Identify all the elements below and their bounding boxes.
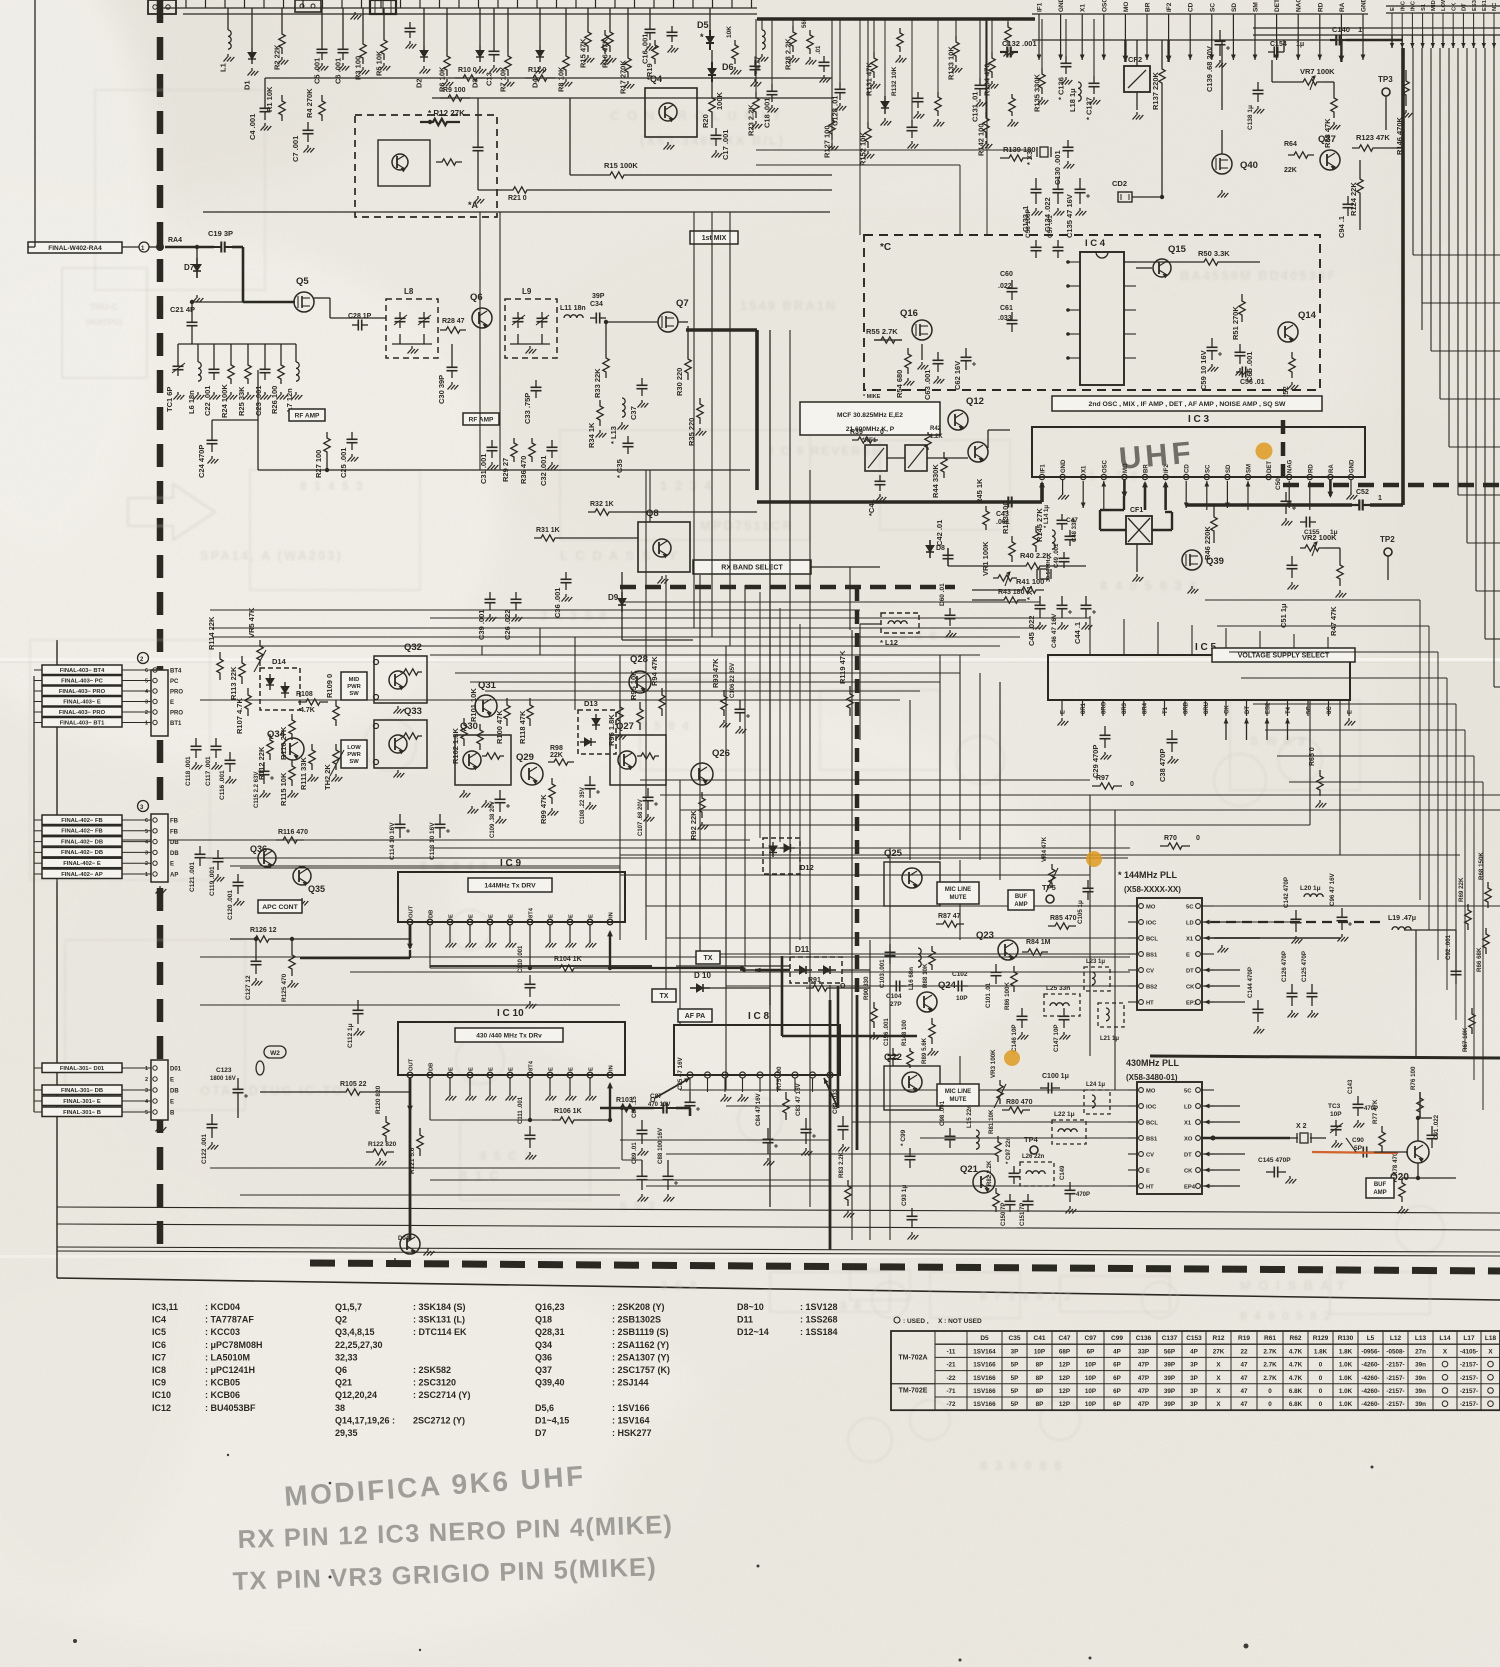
resistor R115 10K	[289, 760, 295, 786]
orange mark	[1256, 443, 1273, 460]
resistor R101 10K	[477, 724, 483, 750]
capacitor C150 7P	[1009, 1194, 1011, 1201]
resistor R118 47K	[527, 698, 533, 726]
IC8 pin	[775, 1072, 781, 1078]
capacitor C36 .001	[565, 572, 567, 579]
resistor R11 0	[525, 75, 555, 81]
connector FINAL-301-E	[42, 1096, 122, 1106]
wire	[430, 1179, 830, 1181]
wire	[1309, 700, 1311, 825]
connector FINAL-403-BT1	[42, 718, 122, 728]
orange mark 3	[1004, 1050, 1020, 1066]
resistor R27 100	[324, 432, 330, 458]
wire bold	[829, 1000, 832, 1250]
transistor Q31	[475, 695, 497, 717]
ground	[354, 12, 356, 15]
capacitor C49 .001	[1063, 552, 1065, 558]
capacitor C44 .1	[1085, 596, 1087, 605]
label TX	[696, 951, 720, 964]
wire	[230, 865, 620, 867]
capacitor C142 470P	[1295, 910, 1297, 919]
wire	[620, 601, 1040, 603]
wire	[240, 1194, 620, 1196]
wire	[212, 627, 1040, 629]
inductor L9	[505, 299, 557, 358]
connector FINAL-301-B	[42, 1107, 122, 1117]
wire	[645, 848, 647, 906]
capacitor C56 .01	[1236, 371, 1242, 373]
wire	[200, 857, 1128, 859]
resistor R69 22K	[1465, 904, 1471, 930]
handwritten UHF	[1118, 435, 1196, 476]
PLL1 pin MO	[1139, 904, 1144, 909]
pot VR2 100K	[1300, 545, 1324, 551]
orange mark 2	[1086, 851, 1102, 867]
resistor R54 680	[905, 348, 911, 374]
wire	[622, 639, 693, 641]
IC3 bottom pin IF2	[1163, 474, 1168, 479]
PLL2 pin HT	[1139, 1184, 1144, 1189]
resistor R77 47K	[1379, 1126, 1385, 1152]
IC4 pin	[1068, 357, 1080, 359]
wire	[756, 149, 1032, 151]
capacitor C82 .033	[842, 1116, 844, 1126]
red pencil mark	[1312, 1152, 1398, 1153]
capacitor C120 .001	[237, 874, 239, 882]
wire	[1272, 81, 1298, 83]
connector J1	[295, 0, 321, 12]
connector pin DT	[1462, 13, 1464, 35]
PLL2 pin EP4	[1196, 1184, 1201, 1189]
IC4	[1080, 252, 1124, 385]
wire	[1439, 48, 1441, 399]
resistor R15 100K	[600, 172, 634, 178]
IC3 pin OSC	[1103, 14, 1105, 40]
capacitor C126 470P	[1291, 984, 1293, 993]
capacitor C136	[1065, 19, 1067, 56]
wire bold	[686, 328, 757, 332]
IC5 pin CK	[1225, 700, 1227, 716]
wire	[57, 1251, 1500, 1256]
wire	[959, 165, 961, 235]
IC10 pin E	[587, 1072, 593, 1078]
variant table	[891, 1331, 1500, 1410]
wire	[178, 343, 296, 345]
wire	[1493, 48, 1495, 687]
connector pin NC	[1493, 13, 1495, 35]
resistor R44 330K	[941, 452, 947, 478]
capacitor C6 .001	[342, 8, 344, 42]
wire	[889, 848, 891, 955]
filter CF1	[1126, 516, 1152, 544]
resistor R119 47K	[847, 686, 853, 716]
capacitor C127a	[911, 120, 913, 127]
crystal filter XF2	[905, 445, 927, 471]
transistor Q4	[645, 88, 697, 137]
capacitor C58 100P	[1035, 240, 1037, 247]
capacitor C14	[671, 26, 673, 32]
wire	[869, 940, 871, 1240]
IC9 pin E	[467, 919, 473, 925]
capacitor C57 .01	[1057, 240, 1059, 247]
IC4 pin	[1124, 309, 1136, 311]
transistor Q21	[973, 1171, 995, 1193]
wire	[744, 585, 746, 966]
resistor R102 1.8K	[461, 718, 467, 746]
resistor R148 100	[907, 1048, 913, 1068]
ground	[463, 790, 465, 793]
wire	[455, 672, 960, 674]
wire	[430, 847, 1130, 849]
resistor R40 2.2K	[1018, 563, 1048, 569]
connector FINAL-403-PRO	[42, 707, 122, 717]
wire bold dashed	[855, 587, 860, 995]
IC3 bottom pin DET	[1266, 474, 1271, 479]
thermistor TH2 2K	[333, 744, 339, 770]
resistor R3 100	[362, 8, 364, 38]
connector FINAL-301-DB	[42, 1085, 122, 1095]
capacitor C94 .1	[1347, 196, 1349, 204]
label 2nd OSC	[1052, 396, 1322, 411]
capacitor C131 .01	[979, 19, 981, 78]
capacitor C123 1800 16V	[237, 1078, 239, 1089]
wire	[477, 98, 479, 140]
resistor R9 100	[440, 95, 470, 101]
transistor Q35	[293, 867, 311, 885]
pot VR4 47K	[1049, 864, 1055, 888]
capacitor C105 1u	[1087, 880, 1089, 888]
wire	[859, 19, 861, 235]
connector FINAL-402-DB	[42, 837, 122, 847]
IC3 bottom pin CD	[1184, 474, 1189, 479]
IC5 pin 8RU	[1205, 700, 1207, 716]
capacitor C45 .022	[1039, 596, 1041, 605]
diode D8	[929, 540, 931, 546]
PLL2 pin XO	[1196, 1136, 1201, 1141]
resistor R25 33K	[245, 360, 251, 384]
wire bold	[232, 246, 243, 249]
wire	[368, 1091, 410, 1093]
IC9 pin IN	[607, 919, 613, 925]
transistor Q23	[998, 940, 1018, 960]
label VOLTAGE SUPPLY SELECT	[1212, 648, 1355, 662]
IC4 pin	[1124, 285, 1136, 287]
connector FINAL-403-PC	[42, 676, 122, 686]
resistor R81 10K	[995, 1136, 1001, 1162]
wire	[829, 985, 831, 1000]
capacitor C102 10P	[952, 985, 958, 987]
wire	[212, 645, 1000, 647]
wire	[909, 700, 911, 860]
transistor Q7	[658, 312, 678, 332]
wire bold	[600, 1107, 654, 1110]
resistor R7 10K	[507, 8, 509, 50]
capacitor C50 68 20V	[1285, 492, 1287, 501]
capacitor C24 470P	[211, 432, 213, 440]
wire	[57, 1207, 1500, 1213]
transistor Q24	[917, 992, 937, 1012]
inductor L24 1u	[1084, 1090, 1110, 1114]
IC10	[398, 1022, 625, 1075]
connector pin	[153, 699, 157, 703]
filter MCF	[800, 402, 940, 435]
wire bold	[781, 956, 784, 1036]
transistor Q32	[374, 656, 427, 703]
wire	[710, 987, 770, 989]
capacitor C116 .001	[229, 752, 231, 760]
wire	[759, 592, 761, 838]
wire	[210, 1167, 620, 1169]
resistor R113 22K	[239, 656, 245, 684]
inductor L21 1u	[1098, 1003, 1124, 1027]
connector pin CK	[1452, 13, 1454, 35]
IC3 pin BR	[1146, 14, 1148, 40]
IC4 pin	[1124, 357, 1136, 359]
PLL1 pin BS1	[1139, 952, 1144, 957]
PLL2 pin BCL	[1139, 1120, 1144, 1125]
wire bold	[856, 995, 859, 1150]
wire	[1446, 678, 1448, 990]
IC3 bottom pin NAG	[1287, 474, 1292, 479]
PLL1 pin DT	[1196, 968, 1201, 973]
IC10 pin E	[447, 1072, 453, 1078]
wire bold	[610, 967, 744, 969]
IC10 pin E	[567, 1072, 573, 1078]
capacitor C128 .01	[839, 19, 841, 82]
transistor Q13	[968, 442, 988, 462]
resistor R100 47K	[504, 698, 510, 726]
capacitor C99	[909, 1148, 911, 1156]
IC3 pin RA	[1340, 14, 1342, 40]
IC10 pin E	[547, 1072, 553, 1078]
ellipse ferrite	[256, 1061, 264, 1075]
resistor R38 47K	[1331, 92, 1337, 118]
resistor R32 1K	[588, 509, 616, 515]
capacitor C21 4P	[191, 316, 193, 322]
wire bold	[755, 969, 790, 972]
capacitor C26 .022	[515, 592, 517, 599]
wire top bus 2	[757, 17, 1035, 21]
inductor L16 68n	[918, 948, 921, 967]
capacitor C5 .001	[321, 8, 323, 42]
diode D30	[884, 96, 886, 102]
transistor Q22	[902, 1072, 922, 1092]
photocoupler D12	[763, 838, 800, 874]
wire	[1324, 547, 1340, 549]
PLL2 pin LD	[1196, 1104, 1201, 1109]
transistor Q25	[902, 868, 922, 888]
resistor R80 470	[1002, 1107, 1030, 1113]
wire	[582, 1119, 610, 1121]
wire bold	[1152, 529, 1172, 531]
capacitor C88 100 16V	[667, 1166, 669, 1176]
wire bold	[1202, 1137, 1290, 1140]
resistor R42 1.2K	[925, 432, 931, 450]
wire	[420, 77, 832, 79]
resistor R126 12	[248, 936, 276, 942]
wire	[1466, 48, 1468, 543]
capacitor C118 .001	[195, 738, 197, 746]
connector pin	[153, 850, 157, 854]
wire	[1448, 48, 1450, 447]
inductor L8	[386, 299, 438, 358]
resistor R142 100	[985, 19, 987, 112]
connector pin	[153, 689, 157, 693]
transistor Q26	[691, 763, 713, 785]
IC3 bottom pin RD	[1307, 474, 1312, 479]
handwritten note line 1	[283, 1460, 586, 1512]
resistor R140	[935, 92, 941, 116]
capacitor C140 1	[1330, 39, 1336, 41]
IC5 pin T4	[1287, 700, 1289, 716]
connector FINAL-402-AP	[42, 869, 122, 879]
wire	[646, 905, 1128, 907]
wire	[616, 511, 757, 513]
connector pin MID	[1432, 13, 1434, 35]
resistor R89 5.6K	[929, 1018, 935, 1044]
wire	[1339, 700, 1341, 855]
ground	[724, 1094, 726, 1097]
connector pin	[153, 818, 157, 822]
dashed box *A	[355, 115, 497, 217]
wire	[729, 212, 731, 646]
IC8 pin	[705, 1072, 711, 1078]
PLL1 pin EP1	[1196, 1000, 1201, 1005]
wire	[649, 470, 651, 522]
resistor R86 100K	[1011, 966, 1017, 992]
crystal X2	[1300, 1133, 1308, 1143]
capacitor C113 10 16V	[439, 814, 441, 824]
IC5	[1048, 655, 1350, 700]
wire	[709, 8, 711, 30]
capacitor C37	[641, 378, 643, 385]
wire	[160, 7, 183, 9]
dashed box *C	[864, 235, 1320, 390]
capacitor C39 .001	[489, 592, 491, 599]
wire bold	[165, 246, 214, 249]
wire	[203, 211, 830, 213]
capacitor C106 22 35V	[739, 700, 741, 709]
capacitor C109 .38 20V	[499, 790, 501, 799]
capacitor C84 47 16V	[767, 1128, 769, 1139]
resistor R12 27K	[420, 119, 460, 125]
wire	[264, 78, 266, 100]
wire	[539, 628, 541, 655]
connector FINAL-402-DB	[42, 847, 122, 857]
capacitor C4 .001	[264, 100, 266, 108]
resistor R47 47K	[1337, 558, 1343, 586]
IC4 pin	[1068, 333, 1080, 335]
transistor Q33	[374, 720, 427, 768]
wire	[711, 212, 713, 637]
wire	[1124, 261, 1196, 263]
IC9 pin E	[567, 919, 573, 925]
wire bold	[837, 986, 840, 1108]
connector pin	[153, 720, 157, 724]
capacitor C132 .001	[1000, 51, 1007, 53]
wire bold	[1186, 503, 1352, 507]
resistor R52 1K	[1289, 352, 1295, 378]
resistor R103 0	[614, 1105, 642, 1111]
resistor R141a	[1005, 22, 1011, 46]
label MID PWR SW	[341, 672, 367, 700]
transistor Q8	[638, 522, 690, 572]
wire top bus	[183, 7, 757, 9]
resistor R39	[852, 437, 878, 443]
wire	[57, 839, 750, 841]
wire	[200, 956, 1130, 958]
IC4 pin	[1124, 333, 1136, 335]
IC9 pin E	[587, 919, 593, 925]
resistor R36 470	[529, 438, 535, 462]
capacitor C108 .22 35V	[589, 776, 591, 785]
inductor L15 22n	[976, 1130, 979, 1149]
resistor R114 22K	[217, 652, 223, 680]
IC8	[674, 1025, 840, 1075]
wire bold	[1150, 1056, 1500, 1058]
wire	[240, 867, 620, 869]
inductor L20 1u	[1304, 894, 1323, 897]
wire	[212, 636, 1020, 638]
wire	[665, 575, 667, 1000]
resistor R131 47K	[873, 19, 875, 52]
diode D3	[479, 8, 481, 46]
connector pin	[153, 1066, 157, 1070]
wire	[1089, 795, 1091, 900]
connector pin S1	[1422, 13, 1424, 35]
wire	[887, 457, 905, 459]
resistor R133 10K	[955, 19, 957, 36]
test point TP4	[1030, 1146, 1038, 1154]
resistor R108 4.7K	[298, 699, 328, 705]
connector pin ES1	[1483, 13, 1485, 35]
capacitor C146 10P	[1021, 1008, 1023, 1016]
inductor L7 12n	[296, 362, 299, 381]
resistor R134 470	[991, 19, 993, 52]
capacitor C32 .001	[551, 440, 553, 447]
wire	[34, 0, 36, 247]
IC5 pin 8RB	[1184, 700, 1186, 716]
diode D11	[790, 957, 842, 983]
label RF AMP 2	[463, 413, 499, 425]
IC3 pin SD	[1232, 14, 1234, 40]
resistor R95 10K	[637, 702, 643, 730]
connector block J301	[151, 1060, 168, 1120]
capacitor C151a	[917, 92, 919, 98]
capacitor C51 1u	[1291, 556, 1293, 565]
IC9 pin OUT	[407, 919, 413, 925]
resistor R75 100	[783, 1092, 789, 1120]
wire	[257, 370, 259, 470]
ground	[263, 790, 265, 793]
PLL1 pin CV	[1139, 968, 1144, 973]
PLL2 pin IOC	[1139, 1104, 1144, 1109]
wire bold	[609, 932, 611, 968]
wire	[620, 874, 1090, 876]
test point TP3	[1382, 88, 1390, 96]
connector pin	[153, 710, 157, 714]
capacitor C107 .68 20V	[647, 788, 649, 797]
inductor L18 1u	[1078, 82, 1081, 101]
wire corner bus	[1386, 5, 1500, 7]
resistor R132 10K	[897, 28, 903, 52]
IC9 pin E	[487, 919, 493, 925]
PLL1 pin IOC	[1139, 920, 1144, 925]
resistor R45 1K	[983, 506, 989, 530]
IC10 pin IN	[607, 1072, 613, 1078]
resistor R24 100K	[228, 360, 234, 384]
IC3 pin SM	[1254, 14, 1256, 40]
